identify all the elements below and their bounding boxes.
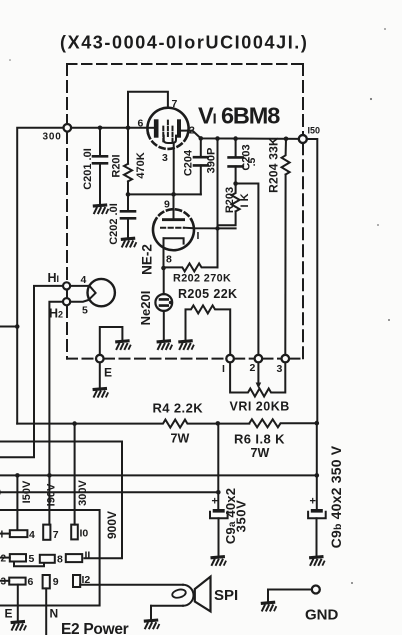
svg-text:I50V: I50V — [21, 480, 33, 503]
svg-text:900V: 900V — [105, 511, 119, 539]
resistor R205 — [186, 305, 231, 354]
link under pins 5-8 — [14, 562, 44, 567]
node 300 — [64, 124, 72, 132]
svg-text:H2: H2 — [49, 307, 63, 321]
node 150 — [299, 135, 307, 143]
wire pin1 grid lead — [184, 227, 236, 230]
capacitor C203 — [229, 139, 243, 184]
capacitor C201 — [93, 126, 107, 205]
svg-text:Ne20I: Ne20I — [138, 291, 153, 326]
svg-text:7: 7 — [53, 529, 59, 541]
svg-text:I K: I K — [239, 193, 251, 207]
svg-text:2: 2 — [189, 125, 195, 137]
pentode V1 (upper section) envelope — [147, 108, 188, 149]
pin 7 terminal — [43, 525, 50, 540]
svg-text:0: 0 — [0, 487, 1, 499]
ground E2 — [11, 621, 27, 630]
pilot lamp — [70, 279, 115, 306]
wire: grid net down to R202 — [217, 139, 219, 268]
wire pin8 cathode lead — [163, 238, 165, 268]
rail B2 y475 — [0, 474, 317, 476]
wire: 300 node left and down to lower-left exit — [0, 128, 64, 424]
svg-text:C204: C204 — [183, 149, 195, 176]
svg-text:300: 300 — [43, 132, 62, 143]
dashed module box left edge — [66, 64, 68, 359]
svg-text:390P: 390P — [206, 148, 218, 174]
terminal 2 — [255, 355, 263, 363]
wire: cathode/plate rail y194 — [128, 193, 201, 195]
pin 11 terminal — [66, 554, 82, 562]
capacitor C9b — [308, 423, 326, 555]
svg-text:350V: 350V — [234, 500, 249, 533]
svg-text:NE-2: NE-2 — [140, 244, 155, 275]
wire: node 150 right and down to B+ rail — [307, 139, 318, 423]
svg-text:2: 2 — [250, 362, 256, 374]
wire N — [45, 588, 47, 635]
ground C9a — [211, 557, 227, 566]
wire pin3 down to rail — [173, 143, 175, 195]
terminal 3 — [282, 355, 290, 363]
potentiometer VR1 — [230, 362, 285, 396]
triode grid dashes — [161, 227, 184, 229]
wire 300V rail — [74, 424, 76, 525]
wire: E terminal to lower ground — [99, 362, 101, 387]
rail B1 y492 — [0, 491, 218, 493]
svg-text:I: I — [1, 530, 4, 541]
pentode grid bar (pin6 side) — [154, 119, 159, 137]
capacitor C202 — [121, 194, 135, 237]
terminal 1 — [226, 355, 234, 363]
terminal H1 — [63, 282, 70, 289]
heater rail H1 — [0, 286, 63, 457]
svg-text:VI 6BM8: VI 6BM8 — [198, 103, 280, 129]
svg-text:9: 9 — [53, 576, 59, 588]
svg-text:2: 2 — [1, 554, 7, 565]
speaker SP1 — [80, 577, 210, 612]
wire speaker return — [150, 606, 152, 620]
wire: pin7 top loop — [128, 92, 168, 164]
ground C201 — [93, 205, 109, 214]
svg-text:R6 I.8 K: R6 I.8 K — [234, 432, 285, 447]
ground speaker — [144, 620, 160, 629]
neon lamp Ne201 — [155, 268, 172, 340]
svg-text:R205 22K: R205 22K — [178, 287, 238, 301]
terminal H2 — [63, 298, 70, 305]
svg-text:HI: HI — [48, 271, 60, 285]
svg-text:R4 2.2K: R4 2.2K — [153, 401, 204, 416]
svg-text:6: 6 — [138, 118, 144, 130]
pentode cathode U — [164, 136, 176, 143]
svg-text:C201 .0I: C201 .0I — [82, 148, 94, 190]
pin 12 terminal — [73, 575, 80, 587]
svg-text:(X43-0004-0IorUCI004JI.): (X43-0004-0IorUCI004JI.) — [60, 33, 309, 53]
svg-text:I0: I0 — [80, 528, 89, 540]
wire: E terminal to internal ground — [100, 327, 123, 355]
svg-text:SPI: SPI — [214, 587, 238, 604]
junction pin8/R202/Ne201 — [161, 266, 166, 271]
pin 6 terminal — [9, 578, 25, 585]
svg-text:I: I — [222, 363, 225, 375]
svg-text:7W: 7W — [251, 446, 270, 460]
resistor R6 — [249, 419, 316, 427]
wire E chassis — [17, 585, 19, 621]
wire: pin2 plate lead to node 150 — [181, 131, 299, 139]
svg-text:5: 5 — [29, 553, 35, 565]
terminal GND — [312, 586, 320, 594]
node junction lower-left — [15, 324, 20, 329]
svg-text:3: 3 — [162, 152, 168, 164]
ground Ne201 — [157, 341, 173, 350]
svg-text:VRI 20KB: VRI 20KB — [230, 400, 290, 414]
rail 900V riser — [0, 442, 122, 559]
svg-text:6: 6 — [28, 576, 34, 588]
triode plate bar — [162, 218, 185, 221]
svg-text:R204 33K: R204 33K — [267, 137, 281, 193]
svg-text:7W: 7W — [171, 432, 190, 446]
svg-text:C9b 40x2 350 V: C9b 40x2 350 V — [328, 445, 344, 548]
svg-text:4: 4 — [29, 529, 35, 541]
wire: 300 node to grid rail — [71, 127, 148, 129]
wire GND — [268, 590, 312, 602]
triode cathode — [164, 238, 184, 244]
svg-text:I50: I50 — [308, 126, 321, 136]
resistor R203 — [218, 184, 240, 226]
ground GND — [261, 602, 277, 611]
svg-text:+: + — [310, 496, 316, 508]
svg-text:GND: GND — [305, 607, 339, 624]
pentode grid dashes — [162, 127, 164, 142]
wire 150V drop — [16, 475, 18, 530]
ground C202 — [121, 238, 137, 247]
svg-text:R20I: R20I — [111, 154, 123, 177]
svg-text:8: 8 — [166, 254, 172, 266]
svg-text:+: + — [212, 496, 218, 508]
heater rail H2 — [49, 302, 63, 525]
capacitor C204 — [194, 138, 208, 194]
pin 4 terminal — [10, 530, 28, 537]
resistor R202 — [164, 263, 218, 271]
pin 5 terminal — [10, 554, 26, 561]
pin 9 terminal — [43, 575, 50, 588]
svg-text:R202 270K: R202 270K — [173, 273, 231, 285]
pin 1 stub — [0, 533, 10, 535]
transformer E2 box — [0, 510, 100, 606]
junction pin6 rail x R201 — [126, 126, 131, 131]
dashed module box top edge — [67, 63, 303, 65]
wire: C203/R203 junction to terminal 2 — [236, 184, 259, 355]
svg-text:E: E — [5, 607, 13, 621]
pin 3 stub — [0, 580, 9, 582]
terminal E — [96, 355, 104, 363]
svg-text:C202 .0I: C202 .0I — [108, 203, 120, 245]
svg-text:N: N — [50, 607, 59, 621]
ground C9b — [309, 557, 325, 566]
wire pin9 plate lead — [173, 194, 175, 218]
svg-text:3: 3 — [277, 363, 283, 375]
resistor R204 — [282, 139, 290, 355]
svg-text:470K: 470K — [135, 152, 147, 178]
svg-text:II: II — [85, 550, 91, 562]
pentode pin6 internal lead — [148, 127, 154, 129]
pin 2 stub — [0, 557, 10, 559]
ground R205 — [178, 341, 194, 350]
resistor R201 — [124, 164, 132, 195]
svg-text:I90V: I90V — [46, 483, 58, 506]
svg-text:E2 Power: E2 Power — [61, 621, 129, 635]
capacitor C9a — [210, 423, 228, 555]
svg-text:I: I — [197, 230, 200, 242]
svg-text:9: 9 — [164, 199, 170, 211]
svg-text:5: 5 — [82, 305, 88, 317]
dashed module box bottom edge — [67, 358, 303, 360]
svg-text:8: 8 — [57, 554, 63, 566]
svg-text:.5: .5 — [246, 157, 258, 166]
ground internal — [115, 341, 131, 350]
svg-text:R203: R203 — [224, 187, 236, 213]
svg-text:4: 4 — [81, 274, 87, 286]
resistor R4 with feed line — [17, 420, 249, 428]
pin 10 terminal — [71, 525, 78, 540]
triode V1 (lower section) envelope — [153, 209, 194, 250]
pin 8 terminal — [40, 555, 55, 563]
dashed module box right edge — [302, 64, 304, 359]
pentode plate bar — [177, 119, 181, 137]
ground E — [93, 388, 109, 397]
svg-text:E: E — [104, 366, 112, 380]
svg-text:3: 3 — [1, 577, 7, 588]
